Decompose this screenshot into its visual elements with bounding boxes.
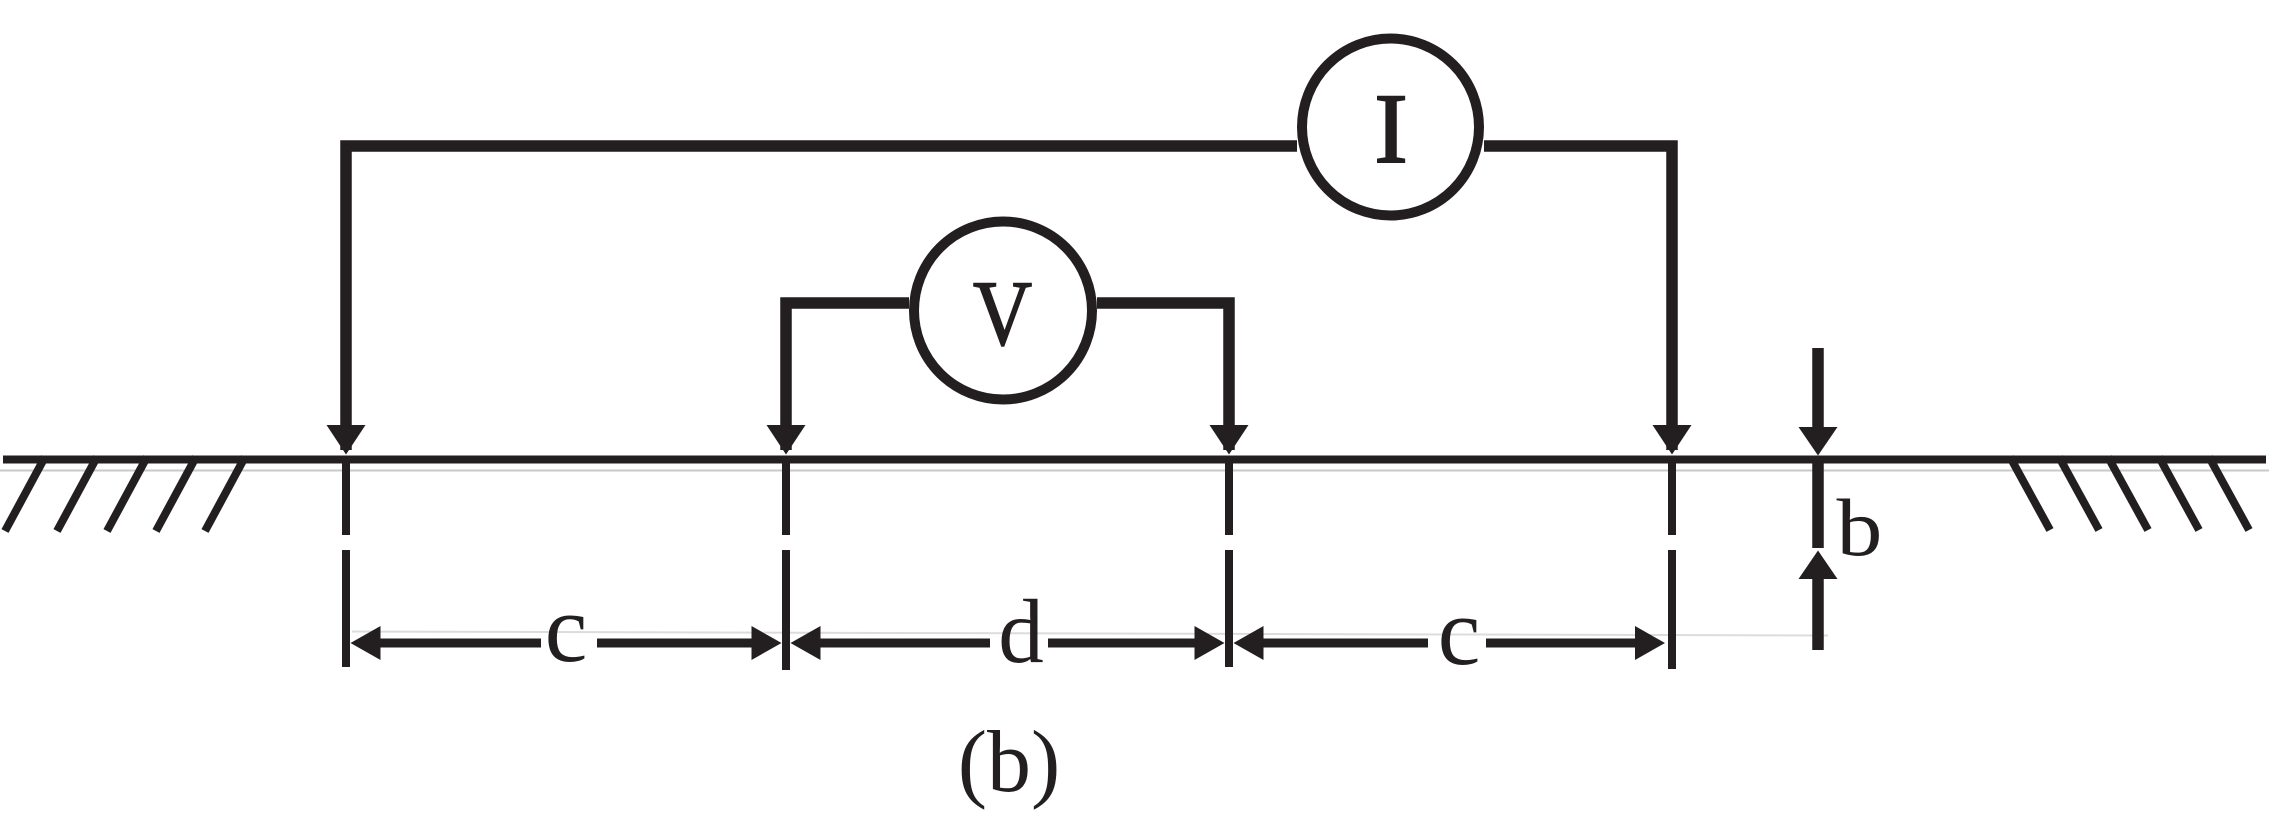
depth dimension b lower line — [1812, 579, 1824, 650]
wire: potential loop right (voltmeter to electrode P2 lead) — [1097, 303, 1229, 450]
electrode P1 buried segment — [782, 462, 790, 536]
dimension d left arrow — [791, 626, 821, 660]
svg-text:c: c — [545, 575, 588, 682]
depth dimension b upper line — [1812, 348, 1824, 440]
depth dimension b down arrow — [1799, 427, 1838, 456]
svg-text:c: c — [1438, 578, 1481, 685]
dimension c2 left arrow — [1234, 626, 1264, 660]
electrode P2 arrowhead — [1210, 425, 1249, 455]
svg-text:V: V — [973, 262, 1032, 365]
electrode C1 buried segment — [342, 462, 350, 536]
depth dimension b up arrow — [1799, 551, 1838, 580]
depth dimension b middle line — [1812, 462, 1824, 549]
extension line below C2 — [1668, 550, 1676, 669]
dimension d right arrow — [1195, 626, 1225, 660]
earth hatching right — [2010, 457, 2249, 530]
earth hatching left — [5, 457, 245, 531]
svg-text:b: b — [1837, 482, 1883, 573]
dimension d line segments — [818, 639, 990, 648]
svg-text:(b): (b) — [958, 714, 1061, 811]
electrode C2 buried segment — [1668, 462, 1676, 536]
wire: potential loop left (electrode P1 lead up and across to voltmeter) — [786, 303, 909, 450]
extension line below P2 — [1225, 550, 1233, 667]
electrode P1 arrowhead — [767, 425, 806, 455]
dimension c1 right arrow — [752, 626, 782, 660]
electrode C1 arrowhead — [327, 425, 366, 455]
wire: current loop right (ammeter to electrode C2 lead) — [1484, 146, 1672, 450]
earth surface line — [3, 456, 2266, 464]
ammeter I circle — [1302, 39, 1479, 216]
svg-text:I: I — [1374, 73, 1407, 184]
svg-text:d: d — [998, 581, 1044, 682]
dimension c1 left arrow — [351, 626, 381, 660]
extension line below P1 — [782, 550, 790, 670]
dimension c1 line segments — [378, 639, 541, 648]
voltmeter V circle — [914, 222, 1092, 400]
extension line below C1 — [342, 550, 350, 667]
electrode P2 buried segment — [1225, 462, 1233, 536]
electrode C2 arrowhead — [1653, 425, 1692, 455]
wire: current loop left (electrode C1 lead up and across to ammeter) — [346, 146, 1297, 450]
dimension c2 right arrow — [1635, 626, 1665, 660]
dimension c2 line segments — [1261, 639, 1428, 648]
